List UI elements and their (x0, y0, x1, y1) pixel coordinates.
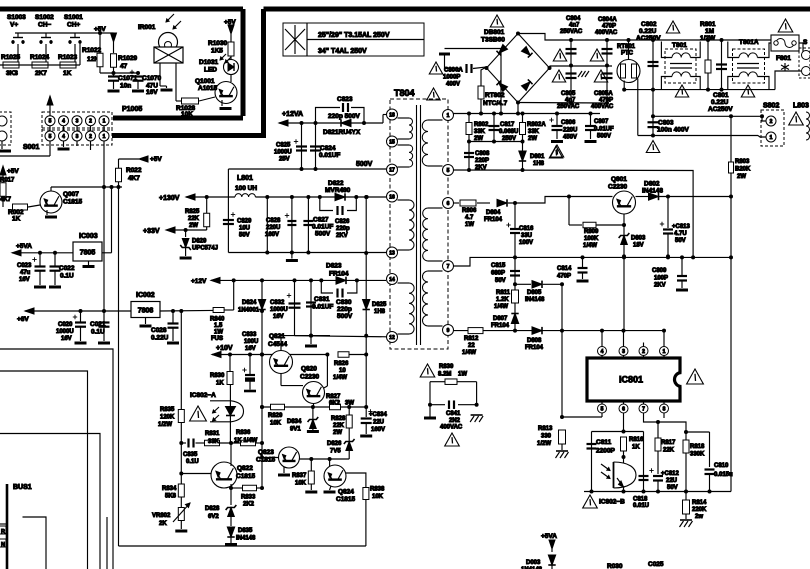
svg-text:7V5: 7V5 (330, 449, 341, 455)
svg-text:250VAC: 250VAC (557, 104, 580, 110)
svg-text:2200P: 2200P (596, 448, 615, 455)
svg-text:1: 1 (103, 134, 106, 140)
svg-text:0.1U: 0.1U (186, 459, 199, 465)
svg-text:12: 12 (389, 335, 395, 341)
svg-text:R835: R835 (160, 407, 175, 413)
svg-text:C831: C831 (314, 296, 330, 303)
svg-text:1K5: 1K5 (211, 48, 223, 55)
svg-text:2W: 2W (737, 174, 746, 180)
svg-text:500V: 500V (356, 161, 373, 168)
svg-text:R817: R817 (661, 440, 676, 446)
svg-text:9: 9 (447, 328, 450, 334)
svg-text:R803: R803 (735, 159, 750, 165)
svg-text:R837: R837 (292, 473, 307, 479)
svg-text:D807: D807 (493, 316, 508, 322)
svg-text:D802: D802 (644, 181, 660, 188)
svg-text:C815: C815 (491, 263, 506, 269)
svg-text:0.22U: 0.22U (639, 28, 657, 35)
svg-text:3K3: 3K3 (6, 70, 18, 77)
svg-text:0.22U: 0.22U (711, 99, 729, 106)
svg-text:R814: R814 (692, 500, 707, 506)
svg-text:C808: C808 (475, 151, 490, 157)
svg-text:D803: D803 (631, 236, 646, 242)
svg-text:1.2K: 1.2K (496, 297, 509, 303)
svg-text:S001: S001 (23, 144, 39, 151)
svg-text:10K: 10K (270, 421, 282, 427)
svg-text:R811: R811 (496, 290, 511, 296)
svg-text:C021: C021 (90, 321, 106, 328)
svg-text:1000U: 1000U (274, 150, 292, 156)
svg-text:10K: 10K (372, 494, 384, 500)
svg-text:AC250V: AC250V (708, 106, 733, 113)
svg-text:CH+: CH+ (67, 22, 80, 29)
svg-text:50V: 50V (239, 233, 250, 239)
svg-text:R813: R813 (538, 426, 553, 432)
svg-text:2W: 2W (528, 136, 537, 142)
svg-text:C2230: C2230 (608, 184, 628, 191)
svg-text:2W: 2W (333, 430, 342, 436)
svg-text:DB801: DB801 (484, 29, 505, 36)
svg-text:1K: 1K (216, 381, 224, 387)
svg-text:D808: D808 (527, 338, 542, 344)
svg-text:R840: R840 (210, 317, 225, 323)
svg-text:25"/29" T3.15AL 250V: 25"/29" T3.15AL 250V (318, 32, 390, 39)
svg-text:1/4W: 1/4W (583, 243, 597, 249)
svg-text:1M: 1M (705, 28, 714, 35)
svg-text:220U: 220U (266, 225, 280, 231)
svg-text:N: N (1, 542, 5, 548)
svg-text:7: 7 (642, 406, 645, 412)
svg-text:1/2W: 1/2W (158, 422, 172, 428)
svg-text:IN4148: IN4148 (642, 188, 663, 195)
svg-text:330: 330 (541, 434, 552, 440)
svg-text:4: 4 (62, 119, 65, 125)
svg-text:1W: 1W (465, 222, 474, 228)
svg-text:1/4W: 1/4W (462, 350, 476, 356)
svg-text:0.1U: 0.1U (91, 329, 105, 336)
svg-text:9V1: 9V1 (290, 427, 301, 433)
svg-text:S1002: S1002 (35, 14, 54, 21)
svg-text:2: 2 (770, 119, 773, 125)
svg-text:S1001: S1001 (64, 14, 83, 21)
svg-text:R834: R834 (162, 486, 177, 492)
svg-text:F801: F801 (776, 55, 791, 62)
svg-text:C807: C807 (594, 119, 609, 125)
svg-text:1W: 1W (214, 330, 223, 336)
svg-text:D829: D829 (192, 239, 207, 245)
svg-text:S802: S802 (763, 103, 779, 110)
svg-text:+10V: +10V (216, 345, 233, 352)
svg-text:R022: R022 (126, 167, 142, 174)
svg-text:1: 1 (103, 119, 106, 125)
svg-text:2: 2 (89, 119, 92, 125)
svg-text:5: 5 (601, 406, 604, 412)
svg-text:A1015: A1015 (198, 85, 218, 92)
svg-text:1.5: 1.5 (214, 323, 223, 329)
svg-text:400VAC: 400VAC (440, 425, 463, 431)
svg-text:7808: 7808 (138, 308, 154, 315)
svg-text:C824: C824 (320, 145, 336, 152)
svg-text:3: 3 (76, 119, 79, 125)
svg-text:R806: R806 (462, 208, 477, 214)
svg-text:1H8: 1H8 (533, 161, 545, 167)
svg-text:IR001: IR001 (138, 24, 156, 31)
svg-text:L801: L801 (237, 175, 253, 182)
svg-text:220p 500V: 220p 500V (328, 113, 360, 120)
svg-text:100K: 100K (584, 236, 599, 242)
svg-text:5: 5 (49, 119, 52, 125)
svg-text:D824: D824 (242, 300, 257, 306)
svg-text:+5V: +5V (7, 168, 19, 175)
svg-text:D003: D003 (526, 560, 541, 566)
svg-text:22U: 22U (666, 478, 677, 484)
svg-text:220K: 220K (692, 507, 707, 513)
svg-text:R836: R836 (236, 430, 251, 436)
svg-text:500V: 500V (315, 231, 331, 238)
svg-text:Q822: Q822 (237, 465, 253, 472)
svg-text:100U: 100U (244, 339, 258, 345)
svg-text:UPC574J: UPC574J (192, 246, 218, 252)
svg-text:7805: 7805 (80, 250, 96, 257)
svg-text:100 UH: 100 UH (235, 185, 257, 192)
svg-text:T801: T801 (672, 42, 687, 49)
svg-text:C816: C816 (519, 226, 534, 232)
svg-text:22: 22 (468, 343, 475, 349)
svg-text:2K: 2K (159, 521, 167, 527)
svg-text:IN4148: IN4148 (236, 536, 256, 542)
svg-text:7: 7 (447, 264, 450, 270)
svg-text:Q824: Q824 (338, 489, 354, 496)
svg-text:+12V: +12V (191, 278, 207, 285)
svg-text:1/2W: 1/2W (537, 441, 551, 447)
svg-text:D828: D828 (205, 506, 220, 512)
svg-text:R827: R827 (326, 394, 341, 400)
svg-text:16V: 16V (146, 89, 158, 96)
svg-text:R812: R812 (464, 336, 479, 342)
svg-text:FR104: FR104 (525, 345, 544, 351)
svg-text:16: 16 (389, 194, 395, 200)
svg-text:C803: C803 (658, 120, 674, 127)
svg-text:R830: R830 (210, 373, 225, 379)
svg-text:LED: LED (204, 67, 217, 74)
svg-text:C801: C801 (713, 92, 729, 99)
svg-text:C4544: C4544 (268, 341, 288, 348)
svg-text:22U: 22U (373, 420, 384, 426)
svg-text:220U: 220U (563, 128, 577, 134)
svg-text:+C834: +C834 (369, 412, 388, 418)
svg-text:470P: 470P (557, 274, 571, 280)
svg-text:R833: R833 (241, 495, 256, 501)
svg-text:R818: R818 (690, 444, 705, 450)
svg-text:13: 13 (389, 250, 395, 256)
svg-text:T804: T804 (394, 88, 415, 98)
svg-text:25V: 25V (279, 157, 290, 163)
svg-text:16V: 16V (19, 277, 30, 283)
svg-text:BUS1: BUS1 (13, 484, 32, 491)
svg-text:C826: C826 (335, 219, 350, 225)
svg-text:D826: D826 (327, 441, 342, 447)
svg-text:34" T4AL 250V: 34" T4AL 250V (318, 48, 367, 55)
svg-text:C809: C809 (652, 268, 667, 274)
svg-text:R826: R826 (334, 361, 349, 367)
svg-text:C811: C811 (596, 439, 612, 446)
svg-text:NTC/4.7: NTC/4.7 (483, 100, 508, 107)
svg-text:2K2: 2K2 (243, 502, 255, 508)
svg-text:4: 4 (62, 134, 65, 140)
svg-text:D822: D822 (328, 180, 344, 187)
svg-text:100V: 100V (519, 240, 533, 246)
svg-text:450V: 450V (563, 135, 577, 141)
svg-text:220P: 220P (475, 158, 489, 164)
svg-text:R839: R839 (439, 364, 454, 370)
svg-text:10: 10 (339, 368, 346, 374)
svg-text:R017: R017 (0, 178, 15, 184)
svg-text:C805A: C805A (594, 91, 613, 97)
svg-text:C1070: C1070 (142, 75, 162, 82)
svg-text:C804: C804 (566, 16, 581, 22)
svg-text:Q820: Q820 (301, 366, 317, 373)
svg-text:3: 3 (76, 134, 79, 140)
svg-text:R1024: R1024 (30, 54, 50, 61)
svg-text:3: 3 (622, 349, 625, 355)
svg-text:+5VA: +5VA (541, 533, 557, 540)
svg-text:C022: C022 (59, 265, 75, 272)
svg-text:6V2: 6V2 (208, 514, 219, 520)
svg-text:R838: R838 (370, 487, 385, 493)
svg-text:10K: 10K (181, 111, 193, 118)
svg-text:D825: D825 (372, 302, 387, 308)
svg-text:8.2M: 8.2M (438, 372, 451, 378)
svg-text:0.01UF: 0.01UF (312, 304, 333, 311)
svg-text:R816: R816 (629, 437, 644, 443)
svg-text:D804: D804 (486, 210, 501, 216)
svg-text:1N4001: 1N4001 (238, 308, 260, 314)
svg-text:C825: C825 (276, 143, 291, 149)
svg-text:T3SB60: T3SB60 (481, 37, 505, 44)
svg-text:1/4W: 1/4W (333, 375, 347, 381)
svg-text:+5VA: +5VA (16, 243, 32, 250)
svg-text:D805: D805 (527, 290, 542, 296)
svg-text:33K: 33K (208, 439, 220, 445)
svg-text:220p: 220p (337, 306, 352, 313)
svg-text:FUS: FUS (211, 336, 223, 342)
svg-text:500V: 500V (597, 134, 611, 140)
svg-text:C2230: C2230 (300, 374, 320, 381)
svg-text:400VAC: 400VAC (595, 30, 618, 36)
svg-text:1W: 1W (458, 372, 467, 378)
svg-text:1/2W: 1/2W (700, 35, 716, 42)
svg-text:FR104: FR104 (329, 271, 349, 278)
svg-text:PTC: PTC (621, 51, 634, 57)
svg-text:IC801: IC801 (619, 375, 643, 385)
svg-text:1000U: 1000U (270, 307, 288, 313)
svg-text:C835: C835 (183, 452, 198, 458)
svg-text:50V: 50V (495, 278, 506, 284)
svg-text:4n7: 4n7 (569, 23, 580, 29)
svg-text:C827: C827 (313, 217, 329, 224)
svg-text:D835: D835 (238, 528, 253, 534)
svg-text:10K: 10K (295, 481, 307, 487)
svg-text:CH−: CH− (38, 22, 51, 29)
svg-text:22K: 22K (333, 423, 345, 429)
svg-text:4: 4 (601, 349, 604, 355)
svg-text:3W: 3W (345, 401, 354, 407)
svg-text:Q823: Q823 (258, 449, 274, 456)
svg-text:R802A: R802A (527, 122, 546, 128)
svg-text:B20K: B20K (735, 167, 751, 173)
svg-text:C1815: C1815 (236, 473, 256, 480)
svg-text:R030: R030 (607, 563, 623, 569)
svg-text:2K7: 2K7 (35, 70, 47, 77)
svg-text:R801: R801 (700, 21, 716, 28)
svg-text:C804A: C804A (598, 17, 617, 23)
svg-text:C806A: C806A (444, 68, 463, 74)
svg-text:Q1001: Q1001 (195, 78, 215, 85)
svg-text:AC250V: AC250V (636, 35, 661, 42)
svg-text:10n: 10n (120, 83, 131, 90)
svg-text:120K: 120K (160, 415, 175, 421)
svg-text:C818: C818 (633, 497, 648, 503)
svg-text:P1005: P1005 (122, 106, 142, 113)
svg-text:+C812: +C812 (661, 471, 680, 477)
svg-text:22K: 22K (663, 448, 675, 454)
svg-text:C023: C023 (17, 263, 32, 269)
svg-text:MVR480: MVR480 (325, 187, 351, 194)
svg-text:4.7: 4.7 (465, 215, 474, 221)
svg-text:+5V: +5V (94, 26, 106, 33)
svg-text:Q007: Q007 (63, 191, 79, 198)
svg-text:14: 14 (389, 277, 395, 283)
svg-text:C823: C823 (337, 96, 353, 103)
svg-text:R831: R831 (205, 431, 220, 437)
svg-text:Q821: Q821 (269, 333, 285, 340)
svg-text:IC003: IC003 (79, 233, 98, 240)
svg-text:0.01U: 0.01U (633, 503, 649, 509)
svg-text:Q801: Q801 (611, 176, 627, 183)
svg-text:C806: C806 (561, 120, 576, 126)
svg-text:R: R (1, 529, 5, 535)
svg-text:0.01UF: 0.01UF (594, 127, 614, 133)
svg-text:4K7: 4K7 (128, 175, 140, 182)
svg-text:V+: V+ (10, 22, 18, 29)
svg-text:18: 18 (389, 112, 395, 118)
svg-text:+5V: +5V (224, 19, 236, 26)
svg-text:IN4148: IN4148 (525, 297, 545, 303)
svg-text:1K: 1K (12, 216, 21, 223)
svg-text:5: 5 (447, 168, 450, 174)
svg-text:47u: 47u (20, 270, 31, 276)
svg-text:33U: 33U (521, 233, 532, 239)
svg-text:C833: C833 (242, 332, 257, 338)
svg-text:+8V: +8V (17, 316, 29, 323)
svg-text:C802: C802 (641, 21, 657, 28)
svg-text:100P: 100P (654, 276, 668, 282)
svg-text:C020: C020 (58, 322, 73, 328)
svg-text:RT802: RT802 (485, 92, 505, 99)
svg-text:C841: C841 (446, 411, 461, 417)
svg-text:R829: R829 (268, 413, 283, 419)
svg-text:+5V: +5V (150, 156, 162, 163)
svg-text:S1003: S1003 (7, 14, 26, 21)
svg-text:+130V: +130V (159, 195, 180, 202)
svg-text:RT801: RT801 (617, 44, 636, 50)
svg-text:1: 1 (770, 135, 773, 141)
svg-text:1000U: 1000U (56, 329, 74, 335)
svg-text:47: 47 (120, 63, 128, 70)
svg-text:500V: 500V (337, 313, 353, 320)
svg-text:4K7: 4K7 (0, 197, 12, 203)
svg-text:6K2: 6K2 (329, 401, 341, 407)
svg-text:+33V: +33V (143, 228, 160, 235)
svg-text:5: 5 (49, 134, 52, 140)
svg-text:R825: R825 (185, 209, 200, 215)
svg-text:C817: C817 (500, 122, 515, 128)
svg-text:R802: R802 (474, 122, 489, 128)
svg-text:2w: 2w (695, 514, 703, 520)
svg-text:250VAC: 250VAC (560, 29, 583, 35)
svg-text:22K: 22K (188, 216, 200, 222)
svg-text:FR104: FR104 (484, 217, 503, 223)
svg-text:0.015u: 0.015u (714, 472, 733, 478)
svg-text:400V: 400V (446, 82, 460, 88)
svg-text:1K 1/4W: 1K 1/4W (234, 438, 258, 444)
svg-text:1: 1 (663, 349, 666, 355)
svg-text:S: S (803, 39, 808, 46)
svg-text:0.22U: 0.22U (151, 335, 169, 342)
svg-text:+C813: +C813 (672, 224, 691, 230)
svg-text:15: 15 (389, 139, 395, 145)
svg-text:0.01UF: 0.01UF (312, 224, 333, 231)
svg-text:680P: 680P (491, 271, 505, 277)
svg-text:160V: 160V (371, 427, 385, 433)
svg-text:T801A: T801A (739, 39, 759, 46)
svg-text:C1815: C1815 (63, 199, 83, 206)
svg-text:50V: 50V (667, 485, 678, 491)
svg-text:2: 2 (89, 134, 92, 140)
svg-text:1: 1 (447, 113, 450, 119)
svg-text:18V: 18V (633, 243, 644, 249)
svg-text:D801: D801 (530, 154, 545, 160)
svg-text:0.068U: 0.068U (499, 129, 518, 135)
svg-text:470P: 470P (602, 24, 616, 30)
svg-text:5K6: 5K6 (165, 494, 177, 500)
svg-text:IC802−B: IC802−B (599, 499, 625, 506)
svg-text:C832: C832 (270, 300, 285, 306)
svg-text:2KV: 2KV (654, 283, 666, 289)
svg-text:C828: C828 (266, 218, 281, 224)
svg-text:L803: L803 (793, 103, 809, 110)
svg-text:1K: 1K (632, 445, 640, 451)
svg-text:D1031: D1031 (199, 59, 219, 66)
svg-text:C1815: C1815 (336, 496, 356, 503)
svg-text:33K: 33K (474, 129, 486, 135)
svg-text:16V: 16V (273, 314, 284, 320)
svg-text:D821RU4YX: D821RU4YX (323, 129, 361, 136)
svg-text:1K: 1K (63, 70, 72, 77)
svg-text:1000P: 1000P (443, 75, 460, 81)
svg-text:6: 6 (447, 201, 450, 207)
svg-text:C805: C805 (561, 91, 576, 97)
svg-text:C028: C028 (151, 327, 167, 334)
svg-text:1H8: 1H8 (374, 309, 386, 315)
svg-text:16V: 16V (61, 336, 72, 342)
svg-text:2: 2 (642, 349, 645, 355)
svg-text:2KV: 2KV (336, 233, 348, 239)
svg-text:160V: 160V (265, 232, 279, 238)
svg-text:C829: C829 (237, 219, 252, 225)
svg-text:400VAC: 400VAC (591, 104, 614, 110)
svg-text:1/4W: 1/4W (494, 304, 508, 310)
